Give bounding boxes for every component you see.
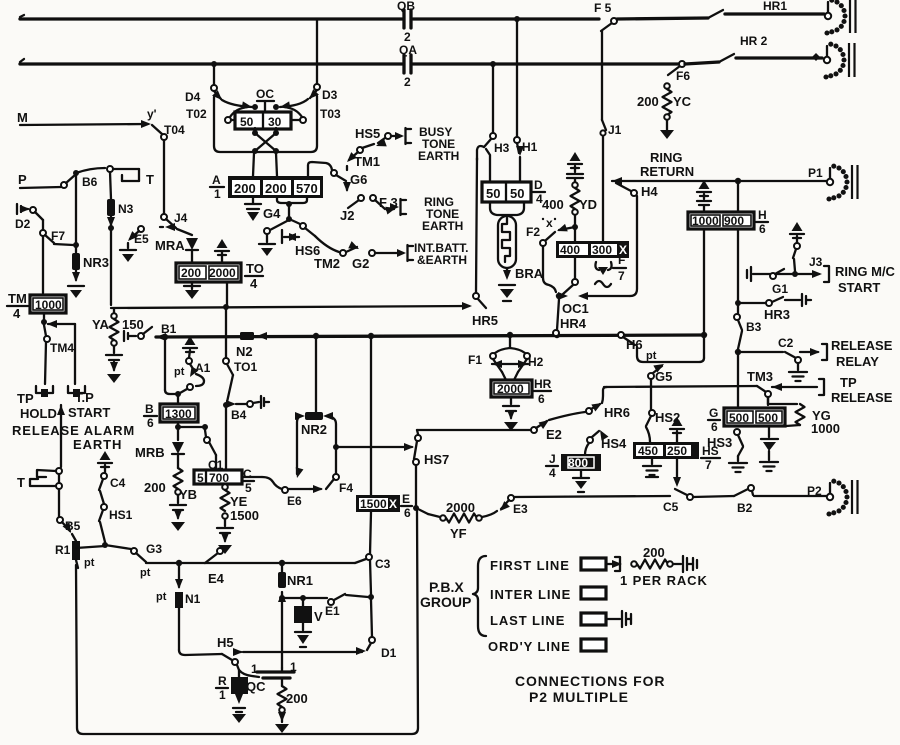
switch B6 [61, 170, 98, 189]
svg-text:RELEASE ALARM: RELEASE ALARM [12, 423, 135, 438]
svg-text:5: 5 [245, 481, 252, 495]
svg-text:2: 2 [404, 30, 411, 44]
svg-text:H1: H1 [522, 140, 538, 154]
wire B1 branch down [165, 337, 181, 397]
relay E coil 1500X [356, 495, 400, 512]
fuse R1 [55, 541, 95, 569]
resistor YF 2000 [416, 500, 497, 541]
svg-text:HS5: HS5 [355, 126, 380, 141]
wire TM3 row [604, 386, 757, 387]
label E/6 [401, 492, 412, 520]
svg-text:HR6: HR6 [604, 405, 630, 420]
svg-text:1500: 1500 [360, 497, 387, 511]
svg-text:F 5: F 5 [594, 1, 612, 15]
svg-text:1000: 1000 [692, 214, 719, 228]
svg-text:TP: TP [840, 375, 857, 390]
svg-text:HR1: HR1 [763, 0, 787, 13]
svg-text:1: 1 [219, 688, 226, 702]
switch F2 [526, 224, 575, 246]
svg-text:4: 4 [250, 276, 258, 291]
wire RING M/C line [747, 266, 829, 282]
svg-text:A1: A1 [195, 361, 211, 375]
svg-text:HS7: HS7 [424, 452, 449, 467]
ground above 2000 [215, 239, 229, 262]
svg-text:pt: pt [646, 350, 657, 362]
svg-text:A: A [212, 173, 221, 187]
wire: bus line QB left [20, 15, 402, 19]
svg-text:1000: 1000 [35, 298, 62, 312]
switch E2 [531, 412, 585, 442]
svg-text:150: 150 [122, 317, 144, 332]
legend LAST LINE [490, 611, 631, 628]
svg-text:QC: QC [246, 679, 266, 694]
wire: bus line to HR1 [617, 18, 708, 19]
switch H6 [618, 332, 657, 362]
svg-text:C3: C3 [375, 557, 391, 571]
label R/1 [216, 674, 228, 702]
svg-text:ORD'Y LINE: ORD'Y LINE [488, 639, 571, 654]
AC symbol below F coil [595, 262, 612, 287]
wire E3 line [514, 496, 670, 497]
wire E4 line [146, 560, 355, 586]
svg-text:7: 7 [618, 269, 625, 283]
wire H3 drop [492, 64, 494, 133]
switch B2 [734, 485, 826, 515]
switch D2 [30, 207, 43, 230]
switch F3 [370, 195, 398, 214]
switch J2 [340, 195, 364, 223]
svg-text:50: 50 [510, 186, 524, 201]
svg-text:y': y' [147, 107, 157, 121]
svg-text:G4: G4 [263, 206, 281, 221]
resistor YC 200 [637, 83, 692, 120]
switch G4 contact [259, 221, 287, 256]
wire: relay A bottom loop [277, 198, 307, 222]
ground above 250 [670, 417, 684, 442]
relay C coil 5|700 [194, 470, 242, 485]
svg-text:EARTH: EARTH [73, 437, 122, 452]
svg-text:M: M [17, 110, 28, 125]
relay TO coil 200|2000 [176, 263, 241, 305]
svg-text:F: F [618, 253, 625, 267]
switch HR4 [553, 299, 587, 336]
label OC with bar [256, 87, 274, 110]
svg-text:RELEASE: RELEASE [831, 390, 893, 405]
svg-text:x: x [546, 216, 553, 230]
svg-text:HR5: HR5 [472, 313, 498, 328]
svg-text:START: START [68, 405, 110, 420]
wire H5 to QC R [237, 665, 259, 677]
svg-text:B1: B1 [161, 322, 177, 336]
svg-text:YC: YC [673, 94, 692, 109]
label F/7 [613, 253, 626, 283]
fuse R [231, 677, 248, 723]
wire M line [17, 107, 157, 128]
svg-text:B6: B6 [82, 175, 98, 189]
svg-text:300: 300 [592, 243, 612, 257]
svg-text:YA: YA [92, 317, 109, 332]
svg-text:T02: T02 [186, 107, 207, 121]
switch D3 [306, 84, 337, 102]
switch H1 [514, 137, 538, 182]
wire RING RETURN line [612, 178, 827, 184]
svg-text:6: 6 [759, 222, 766, 236]
switch J1 [600, 31, 621, 241]
switch HR3 [764, 294, 811, 322]
relay G coil 500|500 [724, 408, 785, 426]
svg-text:500: 500 [729, 411, 749, 425]
switch TM3 [747, 369, 817, 405]
legend ORDY LINE [488, 639, 606, 654]
svg-text:HS: HS [702, 444, 719, 458]
svg-text:2000: 2000 [446, 500, 475, 515]
terminal D2 [15, 204, 31, 231]
ground below C2 [789, 363, 807, 381]
svg-text:6: 6 [404, 506, 411, 520]
ground above J3 [790, 222, 804, 243]
svg-text:N2: N2 [236, 344, 253, 359]
svg-text:F1: F1 [468, 353, 482, 367]
switch HS4 [585, 428, 627, 455]
diode MRA [155, 229, 198, 263]
svg-text:E2: E2 [546, 427, 562, 442]
wire 250 to C5 [673, 459, 681, 487]
switch HR1 [708, 0, 824, 18]
wire H coil drops [704, 229, 738, 335]
svg-text:6: 6 [711, 420, 718, 434]
thermistor BRA [490, 202, 544, 301]
contact T [76, 166, 154, 187]
jack P1 [808, 164, 858, 202]
svg-text:TP: TP [17, 391, 34, 406]
svg-text:QA: QA [399, 43, 417, 57]
svg-text:G6: G6 [350, 172, 367, 187]
capacitor QC [246, 660, 297, 694]
svg-text:P: P [18, 172, 27, 187]
capacitor below G coil [760, 426, 778, 471]
svg-text:MRA: MRA [155, 238, 185, 253]
wire below 1300 [175, 422, 208, 440]
svg-text:900: 900 [724, 214, 744, 228]
switch G5 [648, 361, 672, 410]
switch HS7 [404, 435, 449, 511]
switch TM2 [314, 241, 361, 271]
svg-text:C: C [243, 467, 252, 481]
svg-text:6: 6 [147, 416, 154, 430]
node OC1 [556, 258, 589, 316]
switch E5 [120, 226, 149, 262]
switch C5 [663, 489, 693, 514]
switch E4 [205, 548, 223, 563]
svg-text:1: 1 [214, 187, 221, 201]
svg-text:CONNECTIONS FOR: CONNECTIONS FOR [515, 673, 665, 689]
legend INTER LINE [490, 587, 606, 602]
switch TM1 [344, 147, 380, 170]
svg-text:OC: OC [256, 87, 274, 101]
label C/5 [242, 467, 254, 495]
svg-text:MRB: MRB [135, 445, 165, 460]
switch H3 [477, 133, 510, 182]
wire H1 drop [516, 19, 518, 137]
svg-text:C2: C2 [778, 336, 794, 350]
wire F2 to OC1 loop [543, 246, 556, 292]
switch B1 [138, 322, 177, 341]
wire H6 G5 loop [637, 335, 704, 362]
svg-text:2000: 2000 [209, 266, 236, 280]
resistor YG 1000 [768, 397, 840, 436]
label TO/4 [245, 261, 264, 291]
switch G6 [331, 170, 367, 192]
switch E1 [325, 594, 374, 618]
svg-text:450: 450 [638, 444, 658, 458]
wire P1 drop to H coil [737, 181, 739, 212]
wire N1 to H5 [179, 650, 222, 655]
switch C2 [778, 336, 827, 363]
svg-text:G3: G3 [146, 542, 162, 556]
wire HS6 to TM2 [315, 236, 339, 252]
border enclosure [76, 511, 418, 734]
contact A1 [174, 350, 211, 393]
ground above A1 [183, 336, 197, 352]
svg-text:TM3: TM3 [747, 369, 773, 384]
svg-text:D4: D4 [185, 90, 201, 104]
text T02 T03 [186, 107, 341, 121]
svg-text:700: 700 [209, 471, 229, 485]
svg-text:D1: D1 [381, 646, 397, 660]
svg-text:F6: F6 [676, 69, 690, 83]
wire D3 drop from QB bus [316, 19, 318, 84]
switch T04 [152, 123, 185, 214]
retard coil N3 [107, 172, 134, 227]
relay OC coil 50|30 [225, 112, 306, 129]
svg-text:J1: J1 [608, 123, 622, 137]
svg-text:T03: T03 [320, 107, 341, 121]
svg-text:OC1: OC1 [562, 301, 589, 316]
relay TM coil 1000 [30, 295, 66, 313]
svg-text:TM2: TM2 [314, 256, 340, 271]
svg-text:30: 30 [268, 115, 282, 129]
svg-text:250: 250 [667, 444, 687, 458]
switch F6 [668, 61, 690, 83]
svg-text:D3: D3 [322, 88, 338, 102]
svg-text:T: T [17, 475, 25, 490]
svg-text:TM: TM [8, 291, 27, 306]
rectifier NR3 [68, 176, 109, 298]
svg-text:GROUP: GROUP [420, 594, 471, 610]
svg-text:B4: B4 [231, 408, 247, 422]
relay D coil 50|50 [482, 182, 531, 202]
svg-text:QB: QB [397, 0, 415, 13]
wire: X to relay A [253, 153, 277, 176]
terminal B1 [124, 331, 136, 341]
svg-text:C5: C5 [663, 500, 679, 514]
svg-text:pt: pt [174, 366, 185, 378]
capacitor QB [397, 0, 415, 44]
switch H5 [217, 635, 243, 665]
switch TO1 [223, 310, 257, 402]
fuse N1 [156, 563, 201, 650]
text P.B.X GROUP [420, 556, 486, 636]
switch B5 [57, 517, 81, 541]
relay HR coil 2000 [491, 380, 532, 397]
ground below TO coil [184, 282, 200, 299]
label J/4 [546, 452, 558, 480]
terminal RING TONE EARTH [390, 195, 463, 233]
svg-text:HR: HR [534, 377, 552, 391]
svg-text:B2: B2 [737, 501, 753, 515]
switch G1 [770, 269, 788, 296]
contact F1 H2 [468, 335, 544, 380]
switch E6 [282, 467, 323, 508]
svg-text:H: H [758, 208, 767, 222]
wire: bus line QA right [211, 61, 679, 67]
diode MRB [135, 442, 184, 468]
terminal BUSY TONE EARTH [395, 125, 459, 163]
resistor YB 200 [144, 468, 197, 531]
svg-text:500: 500 [758, 411, 778, 425]
text RELEASE ALARM EARTH [12, 423, 135, 452]
svg-text:FIRST LINE: FIRST LINE [490, 558, 570, 573]
svg-text:pt: pt [84, 557, 95, 569]
svg-text:1500: 1500 [230, 508, 259, 523]
wire: coil top-left hook [222, 100, 258, 117]
svg-text:E3: E3 [513, 502, 528, 516]
svg-text:H4: H4 [641, 184, 658, 199]
svg-text:P2 MULTIPLE: P2 MULTIPLE [529, 689, 629, 705]
ground above YD [567, 152, 583, 178]
svg-text:J3: J3 [809, 255, 823, 269]
label TM/4 [7, 291, 28, 321]
switch TM4 [44, 325, 74, 384]
label H/6 [756, 208, 768, 236]
node C2 [735, 349, 783, 408]
label D/4 [533, 178, 545, 206]
svg-text:1: 1 [251, 662, 258, 676]
switch HR2 [685, 34, 822, 64]
svg-text:YD: YD [579, 197, 597, 212]
jack HR2 [823, 42, 854, 80]
svg-text:P2: P2 [807, 484, 822, 498]
switch H4 [612, 177, 658, 199]
switch E3 [497, 495, 528, 516]
switch D4 [185, 85, 225, 104]
svg-text:G: G [709, 406, 718, 420]
svg-text:HS1: HS1 [109, 508, 133, 522]
svg-text:200: 200 [286, 691, 308, 706]
svg-text:7: 7 [705, 458, 712, 472]
varistor V [294, 598, 323, 647]
terminal TP HOLD [17, 386, 57, 421]
switch HS3 [707, 429, 747, 472]
relay B coil 1300 [160, 397, 198, 422]
switch F4 [326, 474, 353, 495]
terminal TP RELEASE [819, 375, 893, 405]
svg-text:pt: pt [156, 591, 167, 603]
switch HR6 [586, 387, 630, 420]
switch C4 [99, 473, 126, 504]
svg-text:R1: R1 [55, 543, 71, 557]
wire: bus line QA left [20, 59, 402, 64]
node F4 top [333, 444, 412, 474]
svg-text:RETURN: RETURN [640, 164, 694, 179]
svg-text:T: T [146, 172, 154, 187]
wire NR1 node to E1 [282, 595, 327, 601]
svg-text:50: 50 [486, 186, 500, 201]
rectifier N2 [236, 332, 267, 359]
svg-text:F4: F4 [339, 481, 353, 495]
wire D4 drop from QA bus [213, 64, 215, 85]
svg-text:5: 5 [197, 471, 204, 485]
ground above H coil [697, 180, 711, 212]
label HS/7 [701, 444, 720, 472]
svg-text:H3: H3 [494, 141, 510, 155]
wire alarm drop [57, 405, 65, 467]
svg-text:2000: 2000 [497, 382, 524, 396]
node E5 [108, 225, 114, 305]
svg-text:V: V [314, 609, 323, 624]
wire: X crossing below coil [252, 128, 279, 154]
node TM4 [41, 313, 75, 384]
text CONNECTIONS FOR P2 MULTIPLE [515, 673, 665, 705]
rectifier NR1 [278, 566, 313, 668]
relay H coil 1000|900 [688, 212, 754, 229]
contact T alarm [17, 468, 62, 517]
svg-text:EARTH: EARTH [418, 149, 459, 163]
svg-text:INTER LINE: INTER LINE [490, 587, 571, 602]
wire E2 line [417, 430, 531, 434]
svg-text:HR4: HR4 [560, 316, 587, 331]
svg-text:570: 570 [296, 181, 318, 196]
ground above C4 [98, 451, 112, 473]
svg-text:E6: E6 [287, 494, 302, 508]
ground below HR coil [503, 397, 519, 431]
svg-text:200: 200 [144, 480, 166, 495]
switch HS5 [355, 126, 401, 150]
resistor YD 400 [542, 178, 597, 230]
switch D1 [367, 600, 397, 660]
wire C5 to B2 [693, 496, 734, 497]
label G/6 [708, 406, 720, 434]
legend resistor 200 1 PER RACK [620, 545, 708, 588]
ground below YC [660, 120, 674, 139]
svg-text:B: B [145, 402, 154, 416]
svg-text:4: 4 [13, 306, 21, 321]
label A/1 [210, 173, 224, 201]
contact HS6 [282, 219, 320, 258]
svg-text:NR2: NR2 [301, 422, 327, 437]
svg-text:RELEASE: RELEASE [831, 338, 893, 353]
switch J3 [793, 243, 823, 271]
svg-text:J2: J2 [340, 208, 354, 223]
svg-text:400: 400 [542, 197, 564, 212]
switch B3 [734, 314, 762, 349]
capacitor QA [399, 43, 417, 89]
svg-text:50: 50 [240, 115, 254, 129]
svg-text:B3: B3 [746, 320, 762, 334]
svg-text:E1: E1 [325, 604, 340, 618]
svg-text:TO: TO [246, 261, 264, 276]
svg-text:J: J [549, 452, 556, 466]
svg-text:N3: N3 [118, 202, 134, 216]
svg-text:HR3: HR3 [764, 307, 790, 322]
wire: outer loop T02/T03 [214, 96, 317, 152]
relay F coil 400|300|X [556, 229, 629, 258]
switch C1 [204, 430, 224, 472]
terminal TP START [68, 386, 110, 420]
svg-text:200: 200 [643, 545, 665, 560]
resistor 200 below QC [275, 678, 308, 733]
label x [542, 216, 556, 230]
